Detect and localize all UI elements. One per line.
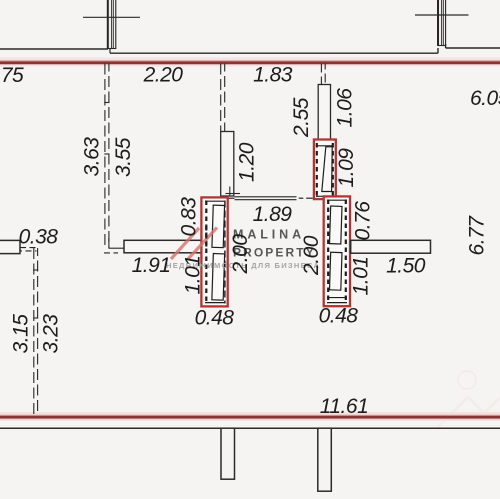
red wall line bottom: [0, 412, 500, 421]
svg-text:6.05: 6.05: [470, 87, 500, 110]
svg-text:0.48: 0.48: [319, 305, 359, 328]
column 1.06: [318, 85, 330, 140]
dashed demolished partition (3.63/3.55): [104, 64, 124, 253]
wire: jog below left band: [109, 48, 111, 53]
svg-text:0.48: 0.48: [195, 307, 235, 330]
svg-text:3.15: 3.15: [10, 314, 33, 354]
demolition slashes (red): [171, 228, 217, 260]
dashed stub above 1.20 column: [221, 64, 225, 132]
svg-text:1.09: 1.09: [335, 148, 358, 188]
door assembly left (2.00): [201, 197, 227, 306]
door assembly upper-right (1.09): [314, 140, 336, 200]
wall stub bottom-right: [318, 428, 332, 491]
column 1.20: [221, 132, 234, 197]
wall segment 1.50: [351, 240, 431, 253]
wire: bottom long wall line: [0, 427, 500, 429]
red wall line top: [0, 58, 500, 67]
re-stroke left door dashed edge over slash: [205, 224, 207, 250]
wire: jogs below right band: [438, 44, 500, 53]
wall hatched band top-right: [438, 0, 446, 46]
svg-text:2.00: 2.00: [300, 235, 323, 276]
wire: crossing tick top-right: [415, 14, 469, 16]
dashed stub above 1.06 column: [321, 64, 325, 85]
mid horizontal wall (1.89 span): [226, 187, 313, 200]
svg-text:3.63: 3.63: [81, 137, 104, 177]
svg-text:1.01: 1.01: [182, 256, 205, 295]
svg-text:0.38: 0.38: [19, 226, 59, 249]
svg-text:3.23: 3.23: [40, 314, 63, 354]
dashed demolished partition (3.15/3.23): [33, 248, 38, 416]
svg-text:1.50: 1.50: [386, 255, 426, 278]
wall bar left (0.38 area): [0, 240, 20, 253]
svg-text:1.06: 1.06: [334, 88, 357, 128]
wall hatched band top-left: [108, 0, 116, 49]
svg-text:1.91: 1.91: [132, 254, 171, 277]
watermark MALINA PROPERTY: [166, 228, 320, 271]
wire: top middle wall line: [110, 52, 438, 54]
svg-text:2.55: 2.55: [290, 97, 313, 138]
svg-text:0.76: 0.76: [352, 201, 375, 241]
dashed stub right of bar: [20, 248, 37, 251]
svg-text:2.20: 2.20: [143, 64, 184, 87]
svg-text:.75: .75: [0, 64, 24, 87]
svg-text:6.77: 6.77: [466, 215, 489, 256]
svg-text:1.01: 1.01: [350, 257, 373, 296]
svg-text:11.61: 11.61: [320, 395, 369, 418]
wall segment 1.91: [124, 240, 206, 253]
svg-text:3.55: 3.55: [112, 137, 135, 177]
right door inner details: [327, 200, 347, 304]
door assembly lower-right (2.00): [324, 196, 350, 306]
faint watermark logo bottom right: [438, 371, 500, 427]
svg-text:2.00: 2.00: [229, 234, 252, 275]
svg-text:1.83: 1.83: [253, 64, 293, 87]
wire: crossing tick top-left: [83, 16, 140, 18]
svg-text:1.89: 1.89: [253, 203, 293, 226]
wire: top-left exterior wall line: [0, 48, 108, 50]
svg-text:0.83: 0.83: [178, 197, 201, 237]
wall stub bottom-left: [221, 428, 235, 479]
left door inner details: [205, 201, 226, 304]
svg-text:1.20: 1.20: [236, 142, 259, 182]
